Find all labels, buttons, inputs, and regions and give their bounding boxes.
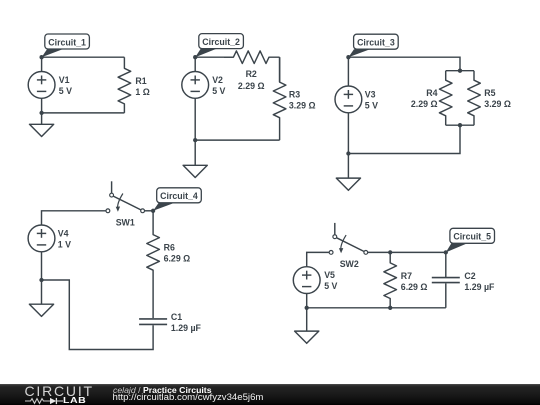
node C2 top [444,250,448,254]
ground G2 [183,140,207,177]
resistor R1 [118,57,131,113]
node bottom Circuit_1 [39,111,43,115]
svg-text:Circuit_3: Circuit_3 [357,38,395,48]
voltage source V5 [293,267,320,308]
callout label Circuit_5 [446,228,495,252]
svg-text:2.29 Ω: 2.29 Ω [238,81,265,91]
label R7 value [401,271,428,292]
wire parallel top bracket [446,70,474,72]
label R3 value [289,89,316,110]
label SW1 [116,217,135,227]
node R7 bottom [388,306,392,310]
node V4 bottom [39,278,43,282]
svg-text:C1: C1 [171,312,182,322]
svg-text:6.29 Ω: 6.29 Ω [164,254,191,264]
label V5 value [324,270,337,291]
logo art: wire-resistor-diode-wire [25,397,71,405]
svg-text:R4: R4 [426,88,437,98]
node A top-left Circuit_1 [39,55,43,59]
label C2 value [464,271,495,292]
wire right rail Circuit_2 [279,57,281,82]
svg-text:SW2: SW2 [340,259,359,269]
svg-text:R5: R5 [484,88,495,98]
resistor R6 [147,211,160,318]
svg-text:V4: V4 [58,229,69,239]
svg-text:V2: V2 [212,75,223,85]
wire C1 return loop [42,280,154,350]
svg-text:2.29 Ω: 2.29 Ω [411,99,438,109]
ground G5 [295,308,319,344]
switch SW1 [106,181,145,212]
ground G1 [30,113,54,137]
wire top rail Circuit_3 [348,57,460,70]
wire V5 to switch [307,252,330,266]
svg-text:V1: V1 [59,75,70,85]
node top Circuit_3 [346,55,350,59]
node switch output Circuit_4 [151,209,155,213]
resistor R5 [468,71,481,126]
label SW2 [340,259,359,269]
svg-text:1.29 µF: 1.29 µF [171,323,202,333]
label V1 value [59,75,72,96]
node bottom Circuit_3 [346,151,350,155]
svg-text:5 V: 5 V [59,86,72,96]
wire bottom rail Circuit_3 [348,125,460,153]
svg-text:5 V: 5 V [324,281,337,291]
label C1 value [171,312,202,333]
svg-text:R1: R1 [135,76,146,86]
label V4 value [58,229,71,250]
label R6 value [164,243,191,264]
node R7 top [388,250,392,254]
callout label Circuit_2 [195,34,243,58]
voltage source V3 [335,57,362,153]
ground G4 [29,280,53,316]
callout label Circuit_1 [42,34,90,57]
resistor R7 [384,252,397,307]
wire switch to node Circuit_5 [368,251,391,253]
wire top-left Circuit_2 [195,56,233,58]
svg-text:Circuit_5: Circuit_5 [453,232,491,242]
svg-text:SW1: SW1 [116,217,135,227]
capacitor C2 [432,252,460,307]
svg-text:5 V: 5 V [365,101,378,111]
resistor R3 [273,57,286,140]
svg-text:R7: R7 [401,271,412,281]
svg-text:Circuit_1: Circuit_1 [48,37,86,47]
voltage source V1 [28,57,55,113]
label R4 value [411,88,438,109]
voltage source V4 [28,225,55,280]
resistor R2 [224,51,280,64]
svg-text:V3: V3 [365,90,376,100]
svg-text:Circuit_4: Circuit_4 [160,191,198,201]
label V3 value [365,90,378,111]
svg-text:1.29 µF: 1.29 µF [464,282,495,292]
switch SW2 [329,223,367,254]
svg-text:C2: C2 [464,271,475,281]
label R2 value [238,69,265,91]
label R5 value [484,88,511,109]
voltage source V2 [182,57,209,140]
node top Circuit_2 [193,55,197,59]
callout label Circuit_3 [348,34,398,57]
resistor R4 [439,71,452,126]
wire V4 to switch [42,211,107,225]
wire parallel bottom bracket [446,124,474,126]
svg-text:1 V: 1 V [58,240,71,250]
node parallel top [458,69,462,73]
svg-text:R2: R2 [246,69,257,79]
svg-text:R3: R3 [289,89,300,99]
svg-text:3.29 Ω: 3.29 Ω [289,100,316,110]
svg-text:1 Ω: 1 Ω [135,87,149,97]
wire node to C2 [390,251,446,253]
capacitor C1 [139,319,167,325]
node parallel bottom [458,123,462,127]
svg-text:R6: R6 [164,243,175,253]
wire top rail Circuit_1 [42,56,125,58]
wire bottom rail Circuit_1 [42,112,125,114]
wire switch to node Circuit_4 [145,210,154,212]
wire bottom rail Circuit_5 [307,307,446,309]
node bottom Circuit_2 [193,138,197,142]
svg-text:6.29 Ω: 6.29 Ω [401,282,428,292]
svg-text:3.29 Ω: 3.29 Ω [484,99,511,109]
svg-text:5 V: 5 V [212,86,225,96]
callout label Circuit_4 [153,188,201,211]
node V5 bottom [305,306,309,310]
ground G3 [336,154,360,191]
svg-text:Circuit_2: Circuit_2 [202,37,240,47]
wire bottom rail Circuit_2 [195,139,279,141]
svg-text:V5: V5 [324,270,335,280]
label V2 value [212,75,225,96]
label R1 value [135,76,149,97]
